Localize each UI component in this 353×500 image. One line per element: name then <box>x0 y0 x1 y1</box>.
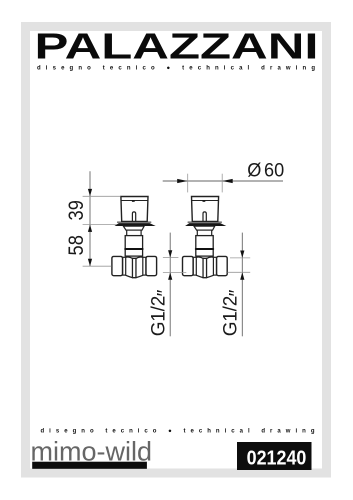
arrow left at 222 <box>222 179 233 183</box>
arrow down at 257 right <box>240 251 244 258</box>
footer underline bar <box>32 462 147 469</box>
arrow down at 266 <box>88 259 92 266</box>
gray border frame <box>26 27 327 474</box>
left valve fixture <box>112 197 157 278</box>
svg-text:021240: 021240 <box>247 447 307 469</box>
ext line right port top <box>230 257 250 259</box>
arrow down at 196 <box>88 189 92 196</box>
ext line right port bottom <box>228 271 251 273</box>
dim 39/58 vertical line <box>89 171 91 266</box>
arrow up at 272 right <box>240 272 244 279</box>
extension line handle top <box>83 195 121 197</box>
ext line left port bottom <box>163 271 186 273</box>
extension line flange bottom <box>83 223 117 225</box>
arrow up at 272 <box>168 272 172 279</box>
extension line right <box>221 174 223 193</box>
arrow down at 257 <box>168 250 172 257</box>
svg-text:Ø60: Ø60 <box>247 159 284 181</box>
arrow right at 187 <box>177 179 188 183</box>
svg-text:39: 39 <box>64 200 88 220</box>
dim G1/2 left leader <box>169 233 171 337</box>
svg-text:PALAZZANI: PALAZZANI <box>35 27 319 67</box>
svg-text:58: 58 <box>64 235 88 255</box>
dim diameter 60 line <box>163 180 283 182</box>
extension line port center <box>83 265 112 267</box>
extension line left <box>187 174 189 193</box>
arrow up at 224 <box>88 224 92 231</box>
dim G1/2 right leader <box>241 233 243 337</box>
code box <box>237 442 312 470</box>
right valve fixture <box>183 197 228 278</box>
ext line left port top <box>163 257 179 259</box>
